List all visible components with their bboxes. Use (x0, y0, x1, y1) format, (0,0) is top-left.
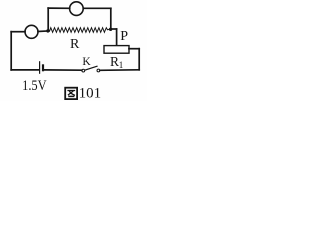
node B junction dot (109, 28, 112, 31)
svg-text:P: P (120, 29, 128, 44)
svg-text:101: 101 (79, 86, 102, 101)
node A junction dot (46, 29, 49, 32)
wire slider P vertical (116, 29, 118, 46)
wire right vertical (138, 49, 140, 70)
svg-text:R: R (110, 54, 119, 69)
wire node B to slider corner (111, 28, 117, 30)
wire top-left horizontal (48, 7, 69, 9)
switch K blade (85, 66, 97, 70)
wire left vertical (10, 32, 12, 70)
caption glyph 图 (65, 88, 77, 99)
rheostat R1 box (104, 46, 129, 54)
battery negative plate (42, 65, 44, 70)
wire top-right horizontal (83, 7, 111, 9)
wire battery left (11, 69, 39, 71)
ammeter G1 (left meter circle) (25, 25, 38, 38)
wire top-left vertical (47, 8, 49, 30)
svg-text:1: 1 (119, 60, 124, 70)
battery positive plate (39, 62, 41, 73)
svg-text:K: K (82, 56, 91, 68)
svg-text:R: R (70, 37, 80, 52)
wire left meter lead (11, 31, 25, 33)
wire top-right vertical (110, 8, 112, 29)
switch K left terminal (82, 69, 85, 72)
svg-text:1.5V: 1.5V (22, 77, 47, 93)
wire battery to switch (44, 69, 82, 71)
wire bottom right (100, 69, 139, 72)
wire meter to node A (38, 30, 48, 33)
voltmeter G2 (top meter circle) (70, 2, 84, 16)
switch K right terminal (97, 69, 100, 72)
resistor R zigzag (50, 28, 109, 33)
wire box right lead (129, 48, 139, 50)
